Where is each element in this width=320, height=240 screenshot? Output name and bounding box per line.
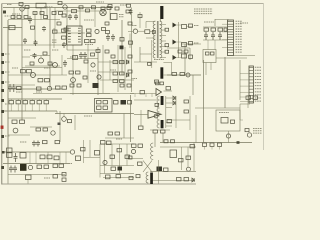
resistor R21 <box>86 9 90 12</box>
CN2 pin 8 label <box>255 88 261 90</box>
CN2 pin 2 label <box>255 69 261 71</box>
T1 primary tap bottom <box>146 37 155 39</box>
comp between bars <box>155 103 159 106</box>
CN2 pin 3 tick <box>249 73 253 75</box>
filter comp 2 <box>165 44 169 47</box>
vertical x140 <box>139 47 141 62</box>
sec label 2 <box>194 42 199 44</box>
CN1 pin 12 label <box>236 49 243 51</box>
red marker <box>1 126 4 129</box>
CN1 pin 8 label <box>236 38 243 40</box>
left edge mark 7 <box>1 110 4 113</box>
sec comp r2 <box>189 42 193 45</box>
T3 secondary rail x176 <box>175 96 177 128</box>
resistor Ra21 <box>77 84 81 87</box>
resistor Ra15 <box>30 62 34 65</box>
small mark <box>237 141 240 144</box>
resistor lower left <box>129 41 133 44</box>
resistor R31 <box>91 40 96 43</box>
resistor R133 <box>117 149 122 152</box>
U1 right pin 6 <box>78 41 81 43</box>
resistor R98 <box>114 101 119 105</box>
T3 winding left <box>157 96 159 128</box>
resistor Ra22 <box>105 50 109 53</box>
CN2 pin 12 label <box>255 100 261 102</box>
long bus y113 right <box>55 113 134 115</box>
CN2 pin 5 tick <box>249 79 253 81</box>
resistor Ra6 <box>64 28 68 31</box>
cap C35 lead <box>45 104 47 111</box>
cap C33 lead <box>31 104 33 111</box>
resistor bottom a <box>132 144 137 147</box>
drop x152 <box>151 94 153 98</box>
CN2 pin 12 tick <box>249 100 253 102</box>
vertical x28 bottom <box>27 180 29 184</box>
vertical x181 <box>181 147 183 170</box>
resistor R71 <box>184 50 188 53</box>
wire y158 left <box>128 158 143 160</box>
transistor Q19 <box>103 160 107 164</box>
wire y85 <box>8 84 35 86</box>
wire y120 <box>167 119 190 121</box>
wire core to winding <box>160 19 162 22</box>
CN1 pin 12 tick <box>228 49 234 51</box>
transistor Q2 <box>95 29 99 33</box>
secondary diode <box>173 96 175 100</box>
left edge mark 3 <box>1 71 4 74</box>
edge label 2 <box>5 61 10 63</box>
resistor on x140 <box>138 15 142 18</box>
label d2 top <box>116 138 122 140</box>
resistor Ra27 <box>127 84 131 87</box>
wire y104 cn2 bottom <box>240 103 250 105</box>
resistor R93 <box>43 128 48 131</box>
wire pc1 to resistor <box>138 30 145 32</box>
capacitor C6 <box>34 40 38 46</box>
resistor R24 <box>127 4 131 7</box>
bus jog <box>56 111 58 114</box>
vertical x60 <box>59 111 61 142</box>
T3 right rail <box>165 96 167 128</box>
vertical x228 bottom <box>228 131 230 143</box>
U1 left pin 3 <box>68 33 71 35</box>
opto coupler dark box <box>20 164 27 171</box>
capacitor C32 <box>23 101 28 104</box>
CN2 pin 4 tick <box>249 76 253 78</box>
wire pc1 left <box>128 31 133 33</box>
wire y62b <box>98 61 124 63</box>
T1 secondary tap 1 <box>160 24 166 26</box>
resistor R64 <box>83 76 87 79</box>
resistor R111 <box>245 129 249 132</box>
resistor R20 <box>79 6 83 9</box>
T3 tap 3 <box>166 107 172 109</box>
CN2 pin 5 label <box>255 79 261 81</box>
capacitor C41 <box>253 96 258 99</box>
filter comp 3 <box>165 50 169 53</box>
resistor bottom left a <box>129 177 133 180</box>
vertical x215 <box>214 40 216 50</box>
resistor R50 <box>21 70 26 73</box>
vertical x240 mid <box>239 104 241 120</box>
drop x146 <box>145 94 147 98</box>
vertical wire x98 <box>97 47 99 95</box>
resistor R80 <box>206 52 210 55</box>
resistor R150 <box>177 178 182 181</box>
relay RL1 coil <box>19 3 23 6</box>
CN1 pin 11 label <box>236 46 243 48</box>
resistor R2 <box>33 12 37 15</box>
vert x110 <box>109 8 111 21</box>
driver transformer lower winding <box>146 172 148 183</box>
vertical x130 under pc1 <box>129 34 131 49</box>
label a6 <box>90 70 96 72</box>
cap C30 lead top <box>10 99 12 101</box>
wire y171 <box>150 170 196 172</box>
resistor R128 <box>53 175 58 179</box>
sec cap 1 <box>182 25 187 29</box>
driver transformer core bar <box>150 173 153 185</box>
label R13 <box>52 40 57 42</box>
CN1 left stub 10 <box>222 46 228 48</box>
resistor Ra11 <box>126 10 130 13</box>
U1 right pin 4 <box>78 35 81 37</box>
filter comp 1 <box>165 28 169 31</box>
vertical x185 <box>184 44 186 75</box>
resistor R131 <box>101 141 106 145</box>
transistor Q6 <box>71 78 76 83</box>
capacitor C26 <box>79 52 83 59</box>
wire y100 <box>134 99 157 101</box>
resistor R151 <box>184 178 189 181</box>
transistor Q17 <box>28 165 32 169</box>
IC U2 dark box <box>93 83 99 88</box>
drop x30 <box>29 152 31 164</box>
label a7 <box>110 69 116 71</box>
resistor Ra24 <box>128 55 132 58</box>
transistor Q5b <box>47 86 51 90</box>
connector J2 upper <box>7 148 13 153</box>
edge label 0 <box>5 15 10 17</box>
vert x41 top <box>40 8 42 20</box>
resistor R101 <box>108 132 113 135</box>
CN1 pin 3 tick <box>228 26 234 28</box>
wire y91 right of bar <box>164 90 173 92</box>
frame right border <box>263 4 265 151</box>
CN1 pin 2 label <box>236 23 243 25</box>
T1 primary tap mid <box>150 31 155 33</box>
vert x88 <box>87 45 89 83</box>
left edge mark 8 <box>1 135 4 138</box>
resistor R129b <box>62 178 66 181</box>
resistor R148 <box>179 159 184 162</box>
wire y93 <box>70 93 110 95</box>
wire y55 <box>30 55 50 57</box>
CN2 pin 2 tick <box>249 70 253 72</box>
T1 secondary tap 2 <box>160 29 166 31</box>
vertical x8 bottom <box>7 164 9 184</box>
resistor R133b <box>125 155 130 158</box>
capacitor C10 <box>204 28 209 31</box>
dark blob junction <box>120 46 124 49</box>
component on bus <box>20 153 26 159</box>
resistor R66 <box>120 61 125 64</box>
vertical x155 <box>154 133 156 147</box>
T1 secondary tap 6 <box>160 51 166 53</box>
cap lead x204.5 <box>204 146 206 149</box>
transistor Qa2 <box>97 75 101 79</box>
left edge mark 1 <box>1 53 4 56</box>
vertical x104 <box>104 144 106 174</box>
transistor Q13 <box>154 114 158 118</box>
CN1 left stub 7 <box>222 39 228 41</box>
label a8 <box>16 91 22 93</box>
wire y142 long <box>160 142 252 144</box>
capacitor C52 <box>76 156 81 161</box>
flyback diode D main <box>148 111 161 119</box>
cap C31 lead top <box>17 99 19 101</box>
capacitor C1 <box>28 16 32 24</box>
wire y19 <box>8 19 60 21</box>
capacitor C22 <box>12 84 16 92</box>
secondary diode <box>173 101 175 105</box>
rectifier diode D3 <box>173 55 177 60</box>
wire y55 from CN1 <box>234 55 256 57</box>
dark comp d2 <box>118 167 123 171</box>
CN1 pin 4 label <box>236 28 243 30</box>
CN2 left stub 4 <box>240 79 249 81</box>
T1 primary left wire <box>145 22 147 29</box>
rectifier diode D1 <box>173 23 177 28</box>
wire y67 <box>22 67 62 69</box>
vertical x225 <box>224 57 226 108</box>
left vertical bus x8 <box>7 20 9 163</box>
comp on primary column <box>152 31 155 34</box>
vertical x125 <box>124 47 126 90</box>
relay box <box>170 150 177 158</box>
resistor R60 <box>91 53 95 56</box>
label d1 <box>20 141 27 143</box>
vertical x203 <box>203 60 205 142</box>
wire y50 <box>67 49 98 51</box>
driver transformer upper winding <box>151 143 154 160</box>
transistor Q4 <box>53 63 58 68</box>
bus into comparator <box>130 93 156 95</box>
capacitor C34 <box>37 101 42 104</box>
resistor Ra3 <box>24 16 28 19</box>
resistor R81 <box>211 52 215 55</box>
vert x47 top <box>46 8 48 20</box>
CN2 pin 9 label <box>255 91 261 93</box>
U1 left pin 1 <box>68 27 71 29</box>
resistor R63 <box>76 71 81 74</box>
wire y54 <box>140 53 152 55</box>
label a2 <box>52 49 59 51</box>
CN1 pin 6 tick <box>228 34 234 36</box>
CN1 pin 6 label <box>236 33 243 35</box>
vertical x196 upper <box>195 115 197 143</box>
edge label 4 <box>5 81 10 83</box>
vert x14 top <box>13 8 15 20</box>
wire y62 <box>134 61 157 63</box>
resistor R96 <box>97 106 102 109</box>
driver component <box>26 175 32 180</box>
transformer T3 core bar bottom <box>161 120 164 128</box>
resistor R6 <box>31 26 35 29</box>
T3 tap 4 <box>166 121 172 123</box>
top label 3 <box>96 1 104 3</box>
CN2 pin 7 label <box>255 85 261 87</box>
transistor Q5 <box>31 73 36 78</box>
vertical x75 <box>74 115 76 130</box>
CN1 pin 10 label <box>236 43 243 45</box>
resistor R45 <box>224 28 227 31</box>
label <box>84 19 94 21</box>
resistor R126 <box>44 165 49 169</box>
IC U4 box outline <box>216 110 240 131</box>
vertical x158 bottom <box>158 160 160 184</box>
capacitor C31 <box>16 101 21 104</box>
wire y157 <box>84 157 101 159</box>
vert x103 <box>102 45 104 93</box>
resistor R141 <box>171 140 175 143</box>
diode out wire 1 <box>177 24 182 26</box>
capacitor C2 <box>106 34 110 41</box>
cap C34 lead <box>38 104 40 111</box>
fuse F2 <box>72 10 77 13</box>
wire to CN1 top <box>215 19 229 21</box>
capacitor C11 <box>211 28 216 31</box>
resistor R4 <box>52 12 56 15</box>
CN2 left stub 6 <box>240 85 249 87</box>
capacitor C51 <box>13 166 17 173</box>
wire y89 <box>8 88 62 90</box>
capacitor C33 <box>30 101 35 104</box>
resistor R54 <box>17 87 22 90</box>
capacitor C35 <box>44 101 49 104</box>
right label block <box>253 129 262 134</box>
edge label 7 <box>5 110 9 112</box>
CN1 pin 5 label <box>236 31 243 33</box>
capacitor C53 <box>106 175 111 179</box>
wire y75 <box>8 74 67 76</box>
wire y130 <box>150 129 170 131</box>
capacitor C46 <box>36 141 40 147</box>
vert x80 <box>79 8 81 28</box>
cap C32 lead <box>24 104 26 111</box>
dark component <box>121 100 127 105</box>
drop x66 <box>65 152 67 164</box>
vertical x171 <box>171 62 173 75</box>
wire y48 <box>167 47 190 49</box>
resistor R73 <box>180 73 185 76</box>
resistor R123 <box>47 155 52 159</box>
resistor Ra20 <box>70 84 74 87</box>
resistor R62 <box>69 71 74 74</box>
capacitor C14 <box>211 32 215 40</box>
resistor left of cross <box>138 162 143 165</box>
resistor R51 <box>27 70 32 73</box>
label a3 <box>12 67 18 69</box>
resistor R132 <box>110 155 115 158</box>
wire y40 under caps <box>203 39 227 41</box>
CN2 left stub 2 <box>240 73 249 75</box>
vertical x54 <box>53 28 55 48</box>
resistor Ra12 <box>128 22 132 25</box>
CN2 pin 6 label <box>255 82 261 84</box>
resistor R52 <box>38 79 43 82</box>
T1 secondary winding <box>160 21 162 58</box>
wire y138 <box>105 137 134 139</box>
vertical x190 <box>189 96 191 130</box>
CN1 pin 2 tick <box>228 23 234 25</box>
resistor R147b <box>186 156 191 159</box>
capacitor C13 <box>204 32 208 40</box>
T1 primary tap top <box>146 21 155 23</box>
thermistor TH1 <box>20 7 24 11</box>
CN2 pin 8 tick <box>249 88 253 90</box>
resistor Ra9 <box>108 5 112 8</box>
vertical x206 <box>205 63 207 76</box>
capacitor C3 <box>111 34 115 41</box>
label <box>84 115 92 117</box>
edge label 1 <box>5 53 10 55</box>
CN2 pin 11 tick <box>249 97 253 99</box>
sec comp r3 <box>189 55 193 58</box>
mains connector J1 <box>9 26 15 30</box>
capacitor C25 <box>73 56 78 60</box>
wire y108 <box>195 107 240 109</box>
capacitor C7 <box>62 42 66 48</box>
U1 right pin 1 <box>78 27 81 29</box>
cap C34 lead top <box>38 99 40 101</box>
wire y177 <box>103 177 134 179</box>
label left <box>131 78 137 80</box>
diagonal wire cross A <box>143 161 152 173</box>
resistor R27 <box>87 34 92 37</box>
CN2 pin 4 label <box>255 75 261 77</box>
resistor Ra26 <box>120 84 124 87</box>
resistor R121 <box>55 141 60 144</box>
vertical x110 <box>109 60 111 80</box>
wire y57 <box>22 56 30 58</box>
CN2 pin 10 label <box>255 94 261 96</box>
vertical x240 <box>239 60 241 100</box>
resistor R5 <box>59 12 63 15</box>
label <box>240 22 248 24</box>
resistor R149 <box>190 145 195 148</box>
label <box>66 163 72 165</box>
capacitor C40 <box>246 96 251 99</box>
U1 labels <box>85 44 93 46</box>
label a5 <box>70 56 76 58</box>
resistor R131b <box>107 141 112 145</box>
top label 1 <box>7 4 12 6</box>
resistor R125 <box>37 165 42 169</box>
resistor Ra2 <box>17 16 21 19</box>
left edge mark 5 <box>1 166 4 169</box>
edge label 8 <box>5 135 10 137</box>
CN2 pin 9 tick <box>249 91 253 93</box>
wire y93 long <box>33 93 134 95</box>
connector CN2 body <box>249 66 253 103</box>
wire y144 <box>100 143 134 145</box>
resistor R134 <box>111 167 116 170</box>
posistor PTC1 box <box>111 14 118 20</box>
row wire 1 <box>187 26 194 28</box>
tall vertical wire x122 <box>121 20 123 75</box>
U1 left pin 5 <box>68 38 71 40</box>
